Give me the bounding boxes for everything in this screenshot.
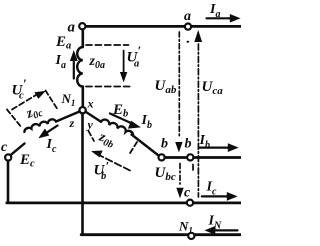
node N1 star point [79,107,85,113]
winding z0c (phase c coil) [24,119,56,132]
dashed tick near N1 for Ub' [89,131,95,141]
terminal a [79,23,85,29]
dashed tick near terminal b for Ub' [129,142,138,156]
dashed tick near N1 for Uc' [46,91,59,111]
wire from terminal c down [7,161,10,202]
voltage arrow Uc' (dashed, points up-right) [12,95,36,110]
tick below node b [192,165,194,171]
svg-text:b: b [161,137,168,152]
current arrow Ia in phase a branch (up) [73,58,75,79]
winding z0b (phase b coil) [101,120,133,135]
line voltage Ubc (dash-dot, arrow down) [179,164,181,185]
svg-text:c: c [184,186,191,201]
current arrow Ic (line current, right) [202,195,228,197]
node c [187,200,193,206]
wire from winding to terminal c [10,144,24,156]
svg-text:x: x [87,97,94,111]
svg-text:y: y [86,118,94,132]
current arrow Ib (line current, right) [199,147,229,149]
wire phase b branch from N1 [86,112,101,122]
wire phase b horizontal [165,156,241,159]
wire neutral vertical from N1 down [81,114,84,234]
winding z0a (phase a coil) [77,47,83,87]
stray dot below node a [187,41,190,43]
svg-text:b: b [185,137,192,152]
dashed tick bottom of z0a [86,86,130,88]
wire neutral bottom horizontal [81,233,240,236]
svg-text:a: a [184,9,191,24]
node N1 right (neutral terminal) [188,233,194,239]
svg-text:c: c [1,140,8,155]
svg-text:z: z [69,116,75,130]
wire from winding to terminal b [132,135,160,157]
wire from winding down to star point [82,87,85,108]
wire phase c branch from N1 [56,111,80,121]
dashed tick near terminal c for Uc' [7,110,22,129]
wire phase a top horizontal [86,25,241,28]
line voltage Uab (dash-dot, arrow down) [178,32,180,138]
current arrow Ic in phase c branch (down-left) [45,126,58,134]
terminal c [5,154,11,160]
voltage arrow Ua' [123,51,125,76]
current arrow IN (neutral current, left) [214,229,238,231]
wire phase c bottom horizontal [7,201,241,204]
svg-text:a: a [68,20,76,36]
current arrow Ib in phase b branch (down-right) [110,114,133,125]
current arrow Ia (line current, right) [207,17,232,19]
voltage arrow Ub' (points up-left toward N1) [100,156,130,171]
node a [185,24,191,30]
line voltage Uca (dash-dot, arrow up) [197,44,199,197]
terminal b [159,154,165,160]
wire from terminal a down to winding [82,30,85,48]
dashed tick top of z0a [86,44,129,46]
node b [187,154,193,160]
